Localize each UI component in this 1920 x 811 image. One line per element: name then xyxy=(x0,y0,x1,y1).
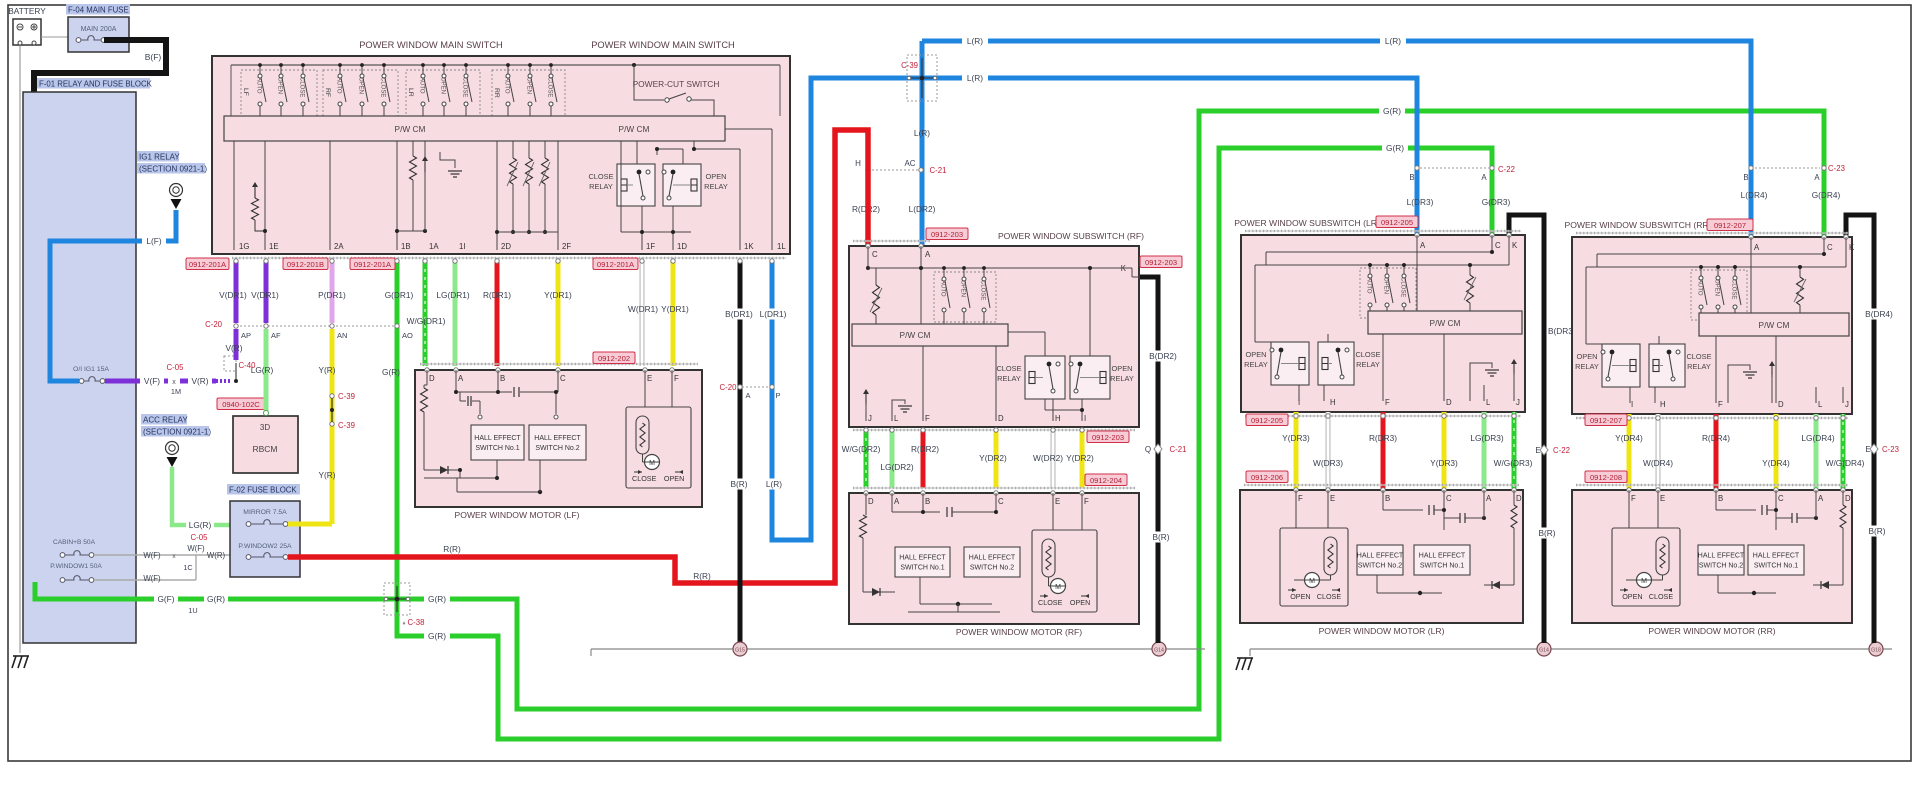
svg-text:L: L xyxy=(1818,400,1823,409)
svg-text:W(DR1): W(DR1) xyxy=(628,304,658,314)
svg-text:G(R): G(R) xyxy=(382,367,400,377)
svg-text:1A: 1A xyxy=(429,242,439,251)
svg-text:L(R): L(R) xyxy=(967,73,983,83)
svg-text:0912-205: 0912-205 xyxy=(1251,416,1283,425)
svg-text:C-22: C-22 xyxy=(1553,446,1570,455)
svg-text:F: F xyxy=(925,414,930,423)
svg-text:L(R): L(R) xyxy=(914,128,930,138)
svg-text:G15: G15 xyxy=(735,648,745,654)
svg-text:B(R): B(R) xyxy=(730,479,747,489)
svg-text:P/W CM: P/W CM xyxy=(900,330,931,340)
svg-text:G(R): G(R) xyxy=(428,594,446,604)
svg-text:CLOSE: CLOSE xyxy=(980,280,986,300)
svg-text:AC: AC xyxy=(904,159,915,168)
svg-text:RELAY: RELAY xyxy=(1244,360,1268,369)
svg-text:RBCM: RBCM xyxy=(252,444,277,454)
svg-text:SWITCH No.1: SWITCH No.1 xyxy=(900,565,944,572)
svg-text:CLOSE: CLOSE xyxy=(299,77,305,97)
svg-text:SWITCH No.1: SWITCH No.1 xyxy=(475,445,519,452)
svg-text:POWER WINDOW SUBSWITCH (RR): POWER WINDOW SUBSWITCH (RR) xyxy=(1564,220,1711,230)
svg-text:HALL EFFECT: HALL EFFECT xyxy=(969,555,1016,562)
svg-text:I: I xyxy=(1298,398,1300,407)
svg-text:SWITCH No.2: SWITCH No.2 xyxy=(1358,563,1402,570)
svg-text:x: x xyxy=(172,379,176,386)
svg-text:0912-207: 0912-207 xyxy=(1714,221,1746,230)
svg-text:G(F): G(F) xyxy=(157,594,174,604)
svg-text:POWER WINDOW MAIN SWITCH: POWER WINDOW MAIN SWITCH xyxy=(591,40,735,50)
svg-text:R(R): R(R) xyxy=(693,571,711,581)
svg-text:AUTO: AUTO xyxy=(336,77,342,94)
svg-text:1U: 1U xyxy=(188,606,197,615)
svg-text:F: F xyxy=(1298,494,1303,503)
svg-text:K: K xyxy=(1849,243,1855,252)
svg-text:R(DR1): R(DR1) xyxy=(483,290,511,300)
svg-text:RR: RR xyxy=(493,88,500,98)
svg-text:AUTO: AUTO xyxy=(419,77,425,94)
svg-text:SWITCH No.2: SWITCH No.2 xyxy=(1699,563,1743,570)
svg-text:A: A xyxy=(894,497,900,506)
svg-text:1C: 1C xyxy=(183,563,192,572)
svg-text:2D: 2D xyxy=(501,242,511,251)
svg-text:OPEN: OPEN xyxy=(526,77,532,94)
svg-text:I: I xyxy=(1631,400,1633,409)
svg-text:F-04 MAIN FUSE: F-04 MAIN FUSE xyxy=(68,5,129,14)
svg-text:D: D xyxy=(998,414,1004,423)
svg-text:B: B xyxy=(500,374,505,383)
svg-text:OPEN: OPEN xyxy=(664,474,684,483)
svg-text:C: C xyxy=(998,497,1004,506)
svg-text:W/G(DR1): W/G(DR1) xyxy=(407,316,446,326)
svg-text:C-38: C-38 xyxy=(408,618,425,627)
svg-text:HALL EFFECT: HALL EFFECT xyxy=(1419,553,1466,560)
svg-text:AUTO: AUTO xyxy=(1697,279,1703,296)
svg-text:CABIN+B 50A: CABIN+B 50A xyxy=(53,539,96,546)
svg-text:L(R): L(R) xyxy=(967,36,983,46)
svg-text:HALL EFFECT: HALL EFFECT xyxy=(1357,553,1404,560)
svg-text:M: M xyxy=(649,460,655,467)
svg-text:R(DR4): R(DR4) xyxy=(1702,433,1730,443)
svg-text:LG(DR2): LG(DR2) xyxy=(880,462,913,472)
svg-text:AO: AO xyxy=(402,331,413,340)
svg-text:0912-201B: 0912-201B xyxy=(287,260,324,269)
svg-text:OPEN: OPEN xyxy=(1383,277,1389,294)
svg-text:1L: 1L xyxy=(777,242,786,251)
svg-text:F: F xyxy=(674,374,679,383)
svg-text:IG1 RELAY: IG1 RELAY xyxy=(139,152,180,161)
svg-text:RELAY: RELAY xyxy=(1356,360,1380,369)
svg-text:W(DR3): W(DR3) xyxy=(1313,458,1343,468)
svg-text:Y(DR1): Y(DR1) xyxy=(544,290,572,300)
svg-text:1F: 1F xyxy=(646,242,655,251)
svg-text:C-39: C-39 xyxy=(338,392,355,401)
svg-text:M: M xyxy=(1309,578,1315,585)
svg-text:D: D xyxy=(1516,494,1522,503)
svg-text:E: E xyxy=(1660,494,1665,503)
svg-text:L(DR2): L(DR2) xyxy=(909,204,936,214)
svg-text:C-22: C-22 xyxy=(1498,165,1515,174)
svg-text:A: A xyxy=(1754,243,1760,252)
svg-text:MAIN 200A: MAIN 200A xyxy=(81,26,117,33)
svg-text:H: H xyxy=(1055,414,1061,423)
svg-text:A: A xyxy=(745,391,750,400)
svg-text:C-23: C-23 xyxy=(1828,164,1845,173)
svg-text:C: C xyxy=(1827,243,1833,252)
svg-text:L(R): L(R) xyxy=(766,479,782,489)
svg-text:CLOSE: CLOSE xyxy=(1649,592,1674,601)
svg-text:LG(R): LG(R) xyxy=(251,365,274,375)
svg-text:K: K xyxy=(1512,241,1518,250)
svg-text:A: A xyxy=(1818,494,1824,503)
svg-text:0940-102C: 0940-102C xyxy=(222,400,260,409)
svg-text:C-20: C-20 xyxy=(720,383,738,392)
svg-text:LG(DR4): LG(DR4) xyxy=(1801,433,1834,443)
svg-text:I: I xyxy=(1084,414,1086,423)
svg-text:Y(DR2): Y(DR2) xyxy=(1066,453,1094,463)
svg-text:POWER WINDOW MOTOR (LF): POWER WINDOW MOTOR (LF) xyxy=(455,510,580,520)
svg-text:E: E xyxy=(1055,497,1060,506)
svg-text:M: M xyxy=(1055,584,1061,591)
svg-text:1G: 1G xyxy=(239,242,249,251)
svg-text:CLOSE: CLOSE xyxy=(1317,592,1342,601)
svg-text:2F: 2F xyxy=(562,242,571,251)
svg-text:P/W CM: P/W CM xyxy=(1430,318,1461,328)
svg-text:F: F xyxy=(1718,400,1723,409)
svg-text:B(R): B(R) xyxy=(1538,528,1555,538)
svg-text:J: J xyxy=(1516,398,1520,407)
svg-text:F: F xyxy=(1084,497,1089,506)
svg-text:LG(DR3): LG(DR3) xyxy=(1470,433,1503,443)
svg-text:B(DR2): B(DR2) xyxy=(1149,351,1177,361)
svg-text:Y(DR4): Y(DR4) xyxy=(1762,458,1790,468)
svg-text:Q: Q xyxy=(1145,445,1151,454)
svg-text:OPEN: OPEN xyxy=(1290,592,1310,601)
svg-text:1K: 1K xyxy=(744,242,754,251)
svg-text:F: F xyxy=(1631,494,1636,503)
svg-text:C: C xyxy=(1495,241,1501,250)
svg-text:ACC RELAY: ACC RELAY xyxy=(143,415,188,424)
svg-text:V(R): V(R) xyxy=(225,343,242,353)
svg-text:D: D xyxy=(1845,494,1851,503)
svg-text:P.WINDOW1 50A: P.WINDOW1 50A xyxy=(50,563,102,570)
svg-text:2A: 2A xyxy=(334,242,344,251)
svg-text:L(DR3): L(DR3) xyxy=(1407,197,1434,207)
svg-text:L(DR4): L(DR4) xyxy=(1741,190,1768,200)
svg-text:L: L xyxy=(1486,398,1491,407)
svg-text:0912-208: 0912-208 xyxy=(1590,473,1622,482)
svg-text:F-02 FUSE BLOCK: F-02 FUSE BLOCK xyxy=(229,485,297,494)
svg-text:AUTO: AUTO xyxy=(256,77,262,94)
svg-text:J: J xyxy=(868,414,872,423)
svg-text:A: A xyxy=(1814,173,1820,182)
svg-text:OPEN: OPEN xyxy=(960,280,966,297)
svg-text:D: D xyxy=(1446,398,1452,407)
svg-text:0912-207: 0912-207 xyxy=(1590,416,1622,425)
svg-text:OPEN: OPEN xyxy=(1622,592,1642,601)
svg-text:1I: 1I xyxy=(459,242,466,251)
svg-text:POWER WINDOW SUBSWITCH (LR): POWER WINDOW SUBSWITCH (LR) xyxy=(1234,218,1380,228)
svg-text:BATTERY: BATTERY xyxy=(8,6,46,16)
svg-text:A: A xyxy=(1420,241,1426,250)
svg-text:Y(R): Y(R) xyxy=(318,470,335,480)
svg-text:B(DR1): B(DR1) xyxy=(725,309,753,319)
svg-text:CLOSE: CLOSE xyxy=(380,77,386,97)
svg-text:V(DR1): V(DR1) xyxy=(219,290,247,300)
svg-text:G(R): G(R) xyxy=(428,631,446,641)
svg-text:G(DR1): G(DR1) xyxy=(385,290,414,300)
svg-text:POWER WINDOW MOTOR (LR): POWER WINDOW MOTOR (LR) xyxy=(1319,626,1445,636)
svg-text:RELAY: RELAY xyxy=(997,374,1021,383)
svg-text:P(DR1): P(DR1) xyxy=(318,290,346,300)
svg-text:OPEN: OPEN xyxy=(440,77,446,94)
svg-text:LR: LR xyxy=(407,88,414,97)
svg-text:B: B xyxy=(1385,494,1390,503)
svg-text:0912-205: 0912-205 xyxy=(1381,218,1413,227)
svg-text:AUTO: AUTO xyxy=(504,77,510,94)
svg-text:OPEN: OPEN xyxy=(358,77,364,94)
svg-text:E: E xyxy=(647,374,652,383)
svg-text:H: H xyxy=(1330,398,1336,407)
svg-text:OPEN: OPEN xyxy=(277,77,283,94)
svg-text:C: C xyxy=(1446,494,1452,503)
svg-text:G(DR3): G(DR3) xyxy=(1482,197,1511,207)
svg-text:C-23: C-23 xyxy=(1882,445,1899,454)
svg-text:B: B xyxy=(1718,494,1723,503)
svg-text:RELAY: RELAY xyxy=(589,182,613,191)
svg-text:B: B xyxy=(925,497,930,506)
svg-text:Y(DR2): Y(DR2) xyxy=(979,453,1007,463)
svg-text:V(DR1): V(DR1) xyxy=(251,290,279,300)
svg-text:G(R): G(R) xyxy=(1383,106,1401,116)
svg-text:J: J xyxy=(1845,400,1849,409)
svg-text:LG(R): LG(R) xyxy=(189,520,212,530)
svg-text:Y(DR3): Y(DR3) xyxy=(1282,433,1310,443)
svg-text:D: D xyxy=(868,497,874,506)
svg-text:AP: AP xyxy=(241,331,251,340)
svg-text:C-05: C-05 xyxy=(167,363,185,372)
svg-text:D: D xyxy=(1778,400,1784,409)
svg-text:L(F): L(F) xyxy=(146,236,161,246)
svg-text:CLOSE: CLOSE xyxy=(632,474,657,483)
svg-text:CLOSE: CLOSE xyxy=(462,77,468,97)
svg-text:RELAY: RELAY xyxy=(704,182,728,191)
svg-text:CLOSE: CLOSE xyxy=(1355,350,1380,359)
svg-text:OPEN: OPEN xyxy=(1070,598,1090,607)
svg-text:P/W CM: P/W CM xyxy=(1759,320,1790,330)
svg-text:LF: LF xyxy=(242,88,249,96)
svg-text:W(DR4): W(DR4) xyxy=(1643,458,1673,468)
svg-text:C-05: C-05 xyxy=(191,533,209,542)
svg-text:OPEN: OPEN xyxy=(1714,279,1720,296)
svg-text:G14: G14 xyxy=(1154,648,1164,654)
svg-text:W(F): W(F) xyxy=(187,544,205,553)
svg-text:P.WINDOW2 25A: P.WINDOW2 25A xyxy=(238,543,292,550)
svg-text:C: C xyxy=(872,250,878,259)
svg-text:RELAY: RELAY xyxy=(1575,362,1599,371)
svg-text:(SECTION 0921-1): (SECTION 0921-1) xyxy=(139,164,207,173)
svg-text:AUTO: AUTO xyxy=(940,280,946,297)
svg-text:W(F): W(F) xyxy=(143,574,161,583)
svg-text:B(DR4): B(DR4) xyxy=(1865,309,1893,319)
svg-text:HALL EFFECT: HALL EFFECT xyxy=(1698,553,1745,560)
svg-text:0912-203: 0912-203 xyxy=(1092,433,1124,442)
svg-text:C: C xyxy=(560,374,566,383)
svg-text:L(DR1): L(DR1) xyxy=(760,309,787,319)
svg-text:Y(DR1): Y(DR1) xyxy=(661,304,689,314)
svg-text:V(F): V(F) xyxy=(144,376,160,386)
svg-text:HALL EFFECT: HALL EFFECT xyxy=(474,435,521,442)
svg-text:1B: 1B xyxy=(401,242,411,251)
svg-text:0912-201A: 0912-201A xyxy=(189,260,227,269)
svg-text:H: H xyxy=(855,159,861,168)
svg-text:H: H xyxy=(1660,400,1666,409)
svg-text:W(R): W(R) xyxy=(207,551,226,560)
svg-text:0912-206: 0912-206 xyxy=(1251,473,1283,482)
svg-text:CLOSE: CLOSE xyxy=(1731,279,1737,299)
svg-text:A: A xyxy=(458,374,464,383)
svg-text:MIRROR 7.5A: MIRROR 7.5A xyxy=(243,509,287,516)
svg-text:P: P xyxy=(775,391,780,400)
svg-text:AN: AN xyxy=(337,331,347,340)
svg-text:C: C xyxy=(1778,494,1784,503)
svg-text:C-21: C-21 xyxy=(930,166,947,175)
svg-text:CLOSE: CLOSE xyxy=(547,77,553,97)
svg-text:POWER WINDOW SUBSWITCH (RF): POWER WINDOW SUBSWITCH (RF) xyxy=(998,231,1144,241)
svg-text:L(R): L(R) xyxy=(1385,36,1401,46)
svg-text:0912-201A: 0912-201A xyxy=(597,260,635,269)
svg-text:V(R): V(R) xyxy=(191,376,208,386)
svg-text:B(R): B(R) xyxy=(1868,526,1885,536)
svg-text:W(F): W(F) xyxy=(143,551,161,560)
svg-text:D: D xyxy=(429,374,435,383)
svg-text:W/G(DR2): W/G(DR2) xyxy=(842,444,881,454)
svg-text:Y(DR4): Y(DR4) xyxy=(1615,433,1643,443)
svg-text:R(DR3): R(DR3) xyxy=(1369,433,1397,443)
svg-text:G18: G18 xyxy=(1871,648,1881,654)
svg-text:W/G(DR4): W/G(DR4) xyxy=(1826,458,1865,468)
svg-text:F-01 RELAY AND FUSE BLOCK: F-01 RELAY AND FUSE BLOCK xyxy=(39,79,153,88)
svg-text:Y(R): Y(R) xyxy=(318,365,335,375)
svg-text:POWER-CUT SWITCH: POWER-CUT SWITCH xyxy=(633,79,720,89)
svg-text:F: F xyxy=(1385,398,1390,407)
svg-text:HALL EFFECT: HALL EFFECT xyxy=(899,555,946,562)
svg-text:M: M xyxy=(1641,578,1647,585)
svg-text:CLOSE: CLOSE xyxy=(1038,598,1063,607)
svg-text:AF: AF xyxy=(271,331,281,340)
svg-text:G(R): G(R) xyxy=(207,594,225,604)
svg-text:SWITCH No.1: SWITCH No.1 xyxy=(1754,563,1798,570)
svg-text:C-39: C-39 xyxy=(901,61,918,70)
svg-text:L: L xyxy=(894,414,899,423)
svg-text:E: E xyxy=(1330,494,1335,503)
svg-text:POWER WINDOW MOTOR (RF): POWER WINDOW MOTOR (RF) xyxy=(956,627,1082,637)
svg-text:3D: 3D xyxy=(260,423,270,432)
svg-text:P/W CM: P/W CM xyxy=(619,124,650,134)
svg-text:P/W CM: P/W CM xyxy=(395,124,426,134)
svg-text:W(DR2): W(DR2) xyxy=(1033,453,1063,463)
svg-text:G(DR4): G(DR4) xyxy=(1812,190,1841,200)
svg-text:B(R): B(R) xyxy=(1152,532,1169,542)
svg-text:1E: 1E xyxy=(269,242,279,251)
svg-text:G14: G14 xyxy=(1539,648,1549,654)
svg-text:0912-204: 0912-204 xyxy=(1090,476,1122,485)
svg-text:AUTO: AUTO xyxy=(1366,277,1372,294)
svg-text:SWITCH No.2: SWITCH No.2 xyxy=(535,445,579,452)
svg-text:♦: ♦ xyxy=(402,621,405,627)
svg-text:Y(DR3): Y(DR3) xyxy=(1430,458,1458,468)
svg-text:HALL EFFECT: HALL EFFECT xyxy=(534,435,581,442)
svg-text:POWER WINDOW MOTOR (RR): POWER WINDOW MOTOR (RR) xyxy=(1648,626,1775,636)
svg-text:R(R): R(R) xyxy=(443,544,461,554)
svg-text:RELAY: RELAY xyxy=(1110,374,1134,383)
svg-text:C-39: C-39 xyxy=(338,421,355,430)
svg-text:R(DR2): R(DR2) xyxy=(911,444,939,454)
svg-text:0912-201A: 0912-201A xyxy=(354,260,392,269)
svg-text:OPEN: OPEN xyxy=(706,172,727,181)
svg-text:SWITCH No.1: SWITCH No.1 xyxy=(1420,563,1464,570)
svg-text:A: A xyxy=(925,250,931,259)
svg-text:0912-202: 0912-202 xyxy=(598,354,630,363)
svg-text:CLOSE: CLOSE xyxy=(1400,277,1406,297)
svg-text:RELAY: RELAY xyxy=(1687,362,1711,371)
svg-text:A: A xyxy=(1481,173,1487,182)
svg-text:G(R): G(R) xyxy=(1386,143,1404,153)
svg-text:CLOSE: CLOSE xyxy=(1686,352,1711,361)
svg-text:HALL EFFECT: HALL EFFECT xyxy=(1753,553,1800,560)
svg-text:B: B xyxy=(1743,173,1748,182)
svg-text:OPEN: OPEN xyxy=(1246,350,1267,359)
svg-text:1M: 1M xyxy=(171,387,181,396)
svg-text:1D: 1D xyxy=(677,242,687,251)
svg-text:OPEN: OPEN xyxy=(1112,364,1133,373)
svg-text:0912-203: 0912-203 xyxy=(931,230,963,239)
svg-text:C-21: C-21 xyxy=(1170,445,1187,454)
svg-text:LG(DR1): LG(DR1) xyxy=(436,290,469,300)
svg-text:CLOSE: CLOSE xyxy=(588,172,613,181)
svg-text:0912-203: 0912-203 xyxy=(1145,258,1177,267)
svg-text:B: B xyxy=(1409,173,1414,182)
svg-text:W/G(DR3): W/G(DR3) xyxy=(1494,458,1533,468)
svg-text:(SECTION 0921-1): (SECTION 0921-1) xyxy=(143,427,211,436)
svg-text:OPEN: OPEN xyxy=(1577,352,1598,361)
svg-text:B(F): B(F) xyxy=(145,52,162,62)
svg-text:RF: RF xyxy=(324,88,331,97)
svg-text:O/I IG1 15A: O/I IG1 15A xyxy=(73,366,109,373)
svg-text:CLOSE: CLOSE xyxy=(996,364,1021,373)
svg-text:POWER WINDOW MAIN SWITCH: POWER WINDOW MAIN SWITCH xyxy=(359,40,503,50)
svg-text:SWITCH No.2: SWITCH No.2 xyxy=(970,565,1014,572)
svg-text:C-20: C-20 xyxy=(205,320,223,329)
svg-text:A: A xyxy=(1486,494,1492,503)
